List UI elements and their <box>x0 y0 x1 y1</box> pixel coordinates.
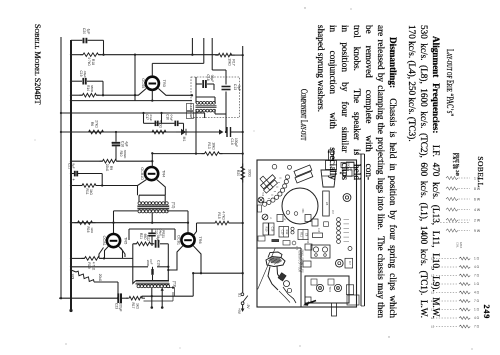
wire VR wiper down <box>94 281 118 283</box>
volume control VR1 <box>76 271 94 282</box>
wire C21/R11 join column <box>101 174 103 186</box>
wire risers to capacitor row <box>143 113 145 123</box>
wire long AGC rail y132 <box>61 131 219 133</box>
layout misc rect d <box>303 261 311 267</box>
layout transistor row circles <box>337 218 341 222</box>
label box L11 <box>186 112 193 119</box>
layout circle below speaker <box>292 241 296 245</box>
label box L10 <box>186 104 193 111</box>
layout chassis outline <box>257 160 357 307</box>
wire left rail (heavy chassis rail) <box>70 40 72 311</box>
transistor TR5 (OC81) <box>107 234 120 247</box>
wire row y266.8 <box>71 266 148 268</box>
resistor R20 330 ohm (vertical) <box>241 164 245 183</box>
layout ferrite rod lower <box>295 172 313 183</box>
capacitor C17 0.01uF (bold) <box>144 122 155 124</box>
wire TR5 left lead to emitter row <box>105 246 109 258</box>
node dots y113-132 <box>60 112 62 114</box>
resistor R21 68 ohm in RC branch <box>134 242 154 246</box>
wire T2 secondary left to TR5 base <box>114 210 139 212</box>
layout circle top-mid <box>288 165 292 169</box>
wire TR3 emitter down <box>151 90 153 100</box>
layout inset clip circle <box>284 281 290 287</box>
layout trimmer TC2 <box>334 284 341 291</box>
small issue note <box>451 153 459 176</box>
header SOBELL <box>476 132 485 212</box>
wire TR3 right lead <box>158 89 192 96</box>
layout misc rect c <box>305 244 312 250</box>
wire T2 secondary right to TR6 base <box>167 210 188 212</box>
layout aerial rod cluster upper <box>261 175 276 189</box>
resistor R6 27k on AGC rail <box>86 130 107 134</box>
switch S1 <box>241 293 244 296</box>
capacitor C20 0.1uF (bold) <box>71 39 82 41</box>
wire TR5 left lead <box>99 248 104 258</box>
layout tiny circle pair <box>291 227 294 230</box>
capacitor C18 0.05uF (bold) <box>196 83 202 85</box>
wire T1 top link <box>195 77 197 97</box>
capacitor C22 0.04uF <box>151 229 153 233</box>
wire C20 corner column <box>103 40 105 54</box>
layout rect centre cells B <box>298 230 308 240</box>
layout volume pot rear <box>336 259 344 267</box>
layout inset clip circle small <box>287 288 291 292</box>
layout inset clip dark segment <box>278 273 286 281</box>
layout transistor row labels <box>344 219 350 221</box>
layout mount circle slashed <box>262 214 268 220</box>
capacitor C13 8uF (bold) <box>225 76 227 85</box>
layout misc rect a <box>258 236 265 241</box>
wire TR5 right lead <box>121 248 126 258</box>
layout inset clip hatch <box>268 258 274 261</box>
layout gang bottom step <box>305 297 349 303</box>
layout aerial rod crossing <box>260 176 273 190</box>
caption LAY-OUT OF ERIE PACY <box>444 49 454 116</box>
layout small rect below L8 <box>324 222 329 227</box>
layout circle mid a <box>286 211 290 215</box>
alignment paragraph <box>406 25 442 318</box>
wire rail y100.6 <box>71 100 192 102</box>
wire TR3 collector up and over <box>151 63 153 76</box>
wire TR6 collector row <box>197 222 207 224</box>
layout pointer arrow <box>305 301 317 305</box>
transistor TR3 (OC45) <box>146 77 159 90</box>
terminal blob bottom of heavy rail <box>69 309 72 312</box>
layout circle top-left <box>272 164 277 169</box>
wire TR5 right lead down <box>119 246 123 258</box>
layout inset clip head <box>266 257 285 267</box>
transformer T2 secondary winding <box>138 210 141 213</box>
layout rect right upper <box>343 170 352 177</box>
capacitor C19 0.04uF (bold) <box>71 80 82 82</box>
wire C19 corner column <box>102 81 104 95</box>
wire speaker tap lead 1 <box>151 288 153 308</box>
wire x212 corner to C13 <box>212 69 226 71</box>
capacitor C14 100uF electrolytic <box>219 131 222 133</box>
wire T1 windings to box <box>196 96 215 98</box>
capacitor C19b 2000pF (solid bar) <box>152 267 154 269</box>
layout trimmer chain circles <box>285 175 289 179</box>
resistor R9 22k <box>100 159 120 163</box>
node dots left rail upper <box>70 54 72 56</box>
wire R11 row to TR4 <box>96 185 138 187</box>
resistor R13 18k <box>202 152 223 156</box>
layout inset clip body <box>268 267 278 291</box>
layout knob neck <box>326 161 337 170</box>
layout misc rect b <box>283 241 290 246</box>
transformer T3 core <box>136 283 170 285</box>
layout mount circle crossed <box>258 197 264 203</box>
layout tuning gang box <box>305 276 349 303</box>
layout circle mid b <box>294 212 298 216</box>
layout circle right small <box>348 247 352 251</box>
transistor TR4 (OC81D) <box>145 167 158 180</box>
layout coil L8 rect <box>323 191 330 216</box>
layout bracket right <box>347 295 359 305</box>
layout rect mid g <box>305 215 311 222</box>
wire gang feed verticals <box>191 38 193 55</box>
resistor R16 1k <box>75 221 96 225</box>
layout ferrite rod upper <box>294 165 312 176</box>
wire TR4 right lead down <box>157 180 166 196</box>
wire C22 row <box>129 228 175 230</box>
transformer T2 core <box>137 205 169 209</box>
capacitor C16 4uF electrolytic <box>115 132 117 142</box>
wire bottom rail right part <box>142 295 193 297</box>
node dots bottom <box>60 297 62 299</box>
layout output pair holder <box>311 245 330 258</box>
transformer T2 primary winding <box>138 202 141 205</box>
wire bottom rail riser <box>192 273 194 296</box>
resistor R17b 1k in bottom rail <box>126 296 145 300</box>
wire right rail <box>242 46 244 293</box>
transformer T2 primary top bar <box>139 194 165 196</box>
transformer T1 secondary winding <box>196 109 199 112</box>
wire TR4 collector up <box>151 153 153 167</box>
layout trimmer chain tick labels <box>279 177 281 179</box>
wire T1 out right <box>225 119 227 132</box>
layout tuning shaft down <box>332 303 337 316</box>
transistor TR6 (OC81) <box>181 233 194 246</box>
wire RC branch right vertical <box>167 244 169 267</box>
resistor R17 10k <box>215 53 235 57</box>
resistor R19 4.7k <box>82 257 103 261</box>
scan specks <box>304 7 305 8</box>
transformer T3 winding <box>137 285 140 288</box>
resistor R11 1k <box>79 184 99 188</box>
layout knob body <box>321 170 336 187</box>
wire base bias column x135 <box>134 55 136 101</box>
wire T3 bar right join <box>167 267 169 281</box>
caption Sobell Model S204BT <box>33 24 42 105</box>
layout gang small squares <box>311 279 317 285</box>
wire speaker tap lead 2 with arrow <box>161 291 163 308</box>
layout grommet <box>343 194 351 202</box>
wire link row y273.2 <box>193 272 243 274</box>
wire TR4 left lead down <box>138 180 147 196</box>
wire TR6 left lead <box>168 246 183 270</box>
layout speaker circle <box>282 188 318 224</box>
transformer T1 core <box>196 105 217 107</box>
capacitor C16c 0.04uF (bold) <box>174 121 176 127</box>
wire TR6 emitter down <box>200 262 202 273</box>
transformer T1 primary winding <box>196 101 199 104</box>
caption COMPONENT LAY-OUT <box>300 89 310 140</box>
resistor R15 4.7k <box>212 221 232 225</box>
layout rect R12 right <box>313 233 323 238</box>
layout rect C7 <box>345 258 353 268</box>
layout rect mid h <box>312 219 318 226</box>
resistor R14 680 ohm <box>79 93 99 97</box>
wire T3 bar left join <box>133 276 136 284</box>
layout right flange lines <box>360 154 362 306</box>
wire 196 column <box>195 118 197 154</box>
wire secondary return loop <box>144 300 174 302</box>
resistor R7 470 ohm on AGC rail <box>149 130 169 134</box>
margin list upper rows <box>446 176 458 179</box>
resistor R18 4.7k <box>80 53 102 57</box>
layout knob shaft <box>329 150 334 161</box>
dashed enclosure T1 assembly <box>191 77 240 118</box>
capacitor C21 8uF electrolytic <box>71 173 74 175</box>
page number 249 <box>482 305 491 320</box>
layout label C15 box top-right <box>341 163 354 168</box>
layout rect pair left A <box>263 223 268 235</box>
wire TR6 right lead <box>193 246 201 262</box>
layout inset diagonal guide <box>258 248 276 289</box>
layout right column rect C3 <box>346 162 354 176</box>
wire RC branch left vertical <box>132 244 134 276</box>
wire TR3 left lead <box>103 89 146 96</box>
layout rect mid f <box>277 215 283 222</box>
transformer T3 top bar <box>136 280 169 282</box>
layout rect pair left B <box>269 223 274 235</box>
capacitor C22 0.04uF (bold) in RC branch <box>151 243 155 245</box>
wire T2 centre tap <box>151 213 153 223</box>
wire left rail (thin) <box>60 37 62 298</box>
layout misc rect e <box>258 205 262 212</box>
wire bias row y222.7 <box>71 222 188 224</box>
wire TR5 top vertical <box>113 211 115 234</box>
battery terminal -9V <box>242 305 244 309</box>
diode M1 <box>176 131 188 133</box>
margin dashed row <box>440 222 470 224</box>
layout rect centre cells A <box>279 227 289 238</box>
layout inset lever <box>283 287 296 303</box>
layout rect right lower <box>346 285 353 295</box>
capacitor C23 100uF electrolytic on bottom rail <box>59 297 117 299</box>
layout trimmer TC1 <box>316 284 323 291</box>
layout inset box (clip removal) <box>257 247 301 249</box>
wire under T1 y113 <box>61 112 205 114</box>
dismantling paragraph <box>315 25 399 318</box>
layout dark label bar <box>272 239 279 241</box>
layout aerial rod cluster lower <box>264 180 278 193</box>
wire TR6 top vertical <box>187 211 189 234</box>
